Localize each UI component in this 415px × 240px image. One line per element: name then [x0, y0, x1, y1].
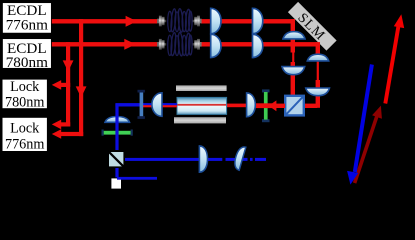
- lens column2 lower: [253, 34, 263, 57]
- lens B1 under SLM: [307, 54, 328, 61]
- arrowhead V1 down: [76, 86, 87, 97]
- wire V1 776nm pickoff vertical: [79, 19, 83, 136]
- arrowhead beam1: [126, 16, 137, 27]
- waveplate left of cell: [138, 90, 145, 119]
- beamsplitter cube 1: [285, 96, 304, 116]
- wire beam1 776nm left segment: [52, 19, 157, 23]
- arrowhead into Lock780: [52, 80, 61, 90]
- wire red through cell: [178, 104, 227, 106]
- filter green vertical: [262, 89, 270, 122]
- wire V2 to Lock776: [58, 122, 70, 126]
- plate bottom: [174, 117, 226, 123]
- lens A2 above cube: [282, 67, 305, 75]
- wire blue left of cell: [115, 103, 177, 106]
- SLM: [287, 2, 337, 52]
- wire vertical B 780 from SLM: [316, 42, 320, 61]
- svg-text:Lock: Lock: [10, 79, 40, 95]
- fiber coil 1: [168, 8, 192, 32]
- wire blue below cube2: [115, 168, 118, 177]
- arrowhead cube1 output: [269, 100, 277, 111]
- svg-text:780nm: 780nm: [5, 95, 44, 111]
- lens column2 upper: [253, 8, 263, 33]
- wire cube1 output left: [271, 104, 285, 108]
- arrowhead into Lock776 upper: [52, 120, 61, 130]
- fiber coupler 2 right: [193, 39, 202, 50]
- wire V2 780nm pickoff vertical: [66, 42, 70, 126]
- lens column1 lower: [211, 34, 221, 57]
- svg-text:Lock: Lock: [10, 120, 40, 136]
- lens above cube2: [105, 117, 130, 123]
- vapor cell: [177, 97, 227, 114]
- filter green horizontal: [102, 130, 133, 136]
- fiber coupler 2 left: [157, 39, 166, 50]
- detector white square: [111, 178, 121, 188]
- lens column1 upper: [211, 8, 221, 33]
- lens A1 under SLM: [283, 32, 305, 39]
- level arrow bright red 780: [385, 24, 399, 104]
- wire red to cell right: [227, 104, 248, 108]
- lens left of cell: [152, 93, 162, 117]
- wire beam2 780nm right segment: [201, 42, 320, 46]
- lens right of cell: [247, 93, 256, 117]
- wire beam1 776nm right segment: [201, 19, 295, 23]
- lens tilted bottom path: [233, 145, 246, 170]
- fiber coupler 1 left: [157, 16, 166, 27]
- box ECDL 776nm: [2, 2, 52, 34]
- box ECDL 780nm: [2, 38, 52, 71]
- beamsplitter cube 2: [108, 151, 124, 167]
- box Lock 776nm: [2, 117, 48, 152]
- wire elbow B to cube: [304, 104, 317, 108]
- plate top: [176, 85, 227, 91]
- svg-text:776nm: 776nm: [6, 16, 48, 33]
- wire blue vertical: [115, 104, 118, 150]
- wire blue cube2 right: [125, 158, 222, 161]
- svg-text:780nm: 780nm: [6, 54, 48, 71]
- arrowhead V2 down: [63, 60, 74, 71]
- fiber coil 2: [168, 32, 192, 56]
- wire V1 to Lock776: [59, 132, 83, 136]
- wire beam2 780nm left segment: [52, 42, 157, 46]
- arrowhead beam2: [124, 39, 135, 50]
- lens B2 above elbow: [306, 88, 330, 96]
- wire vertical A 776 from SLM: [291, 19, 295, 52]
- wire blue dash 2: [250, 158, 253, 161]
- arrowhead into Lock776 lower: [52, 129, 61, 139]
- fiber coupler 1 right: [193, 16, 202, 27]
- wire blue dash 1: [226, 158, 248, 161]
- lens bottom path: [199, 146, 207, 172]
- box Lock 780nm: [2, 79, 48, 111]
- wire blue detector line: [117, 177, 157, 180]
- level arrow blue 420 decay: [355, 65, 372, 173]
- wire blue dash 3: [255, 158, 266, 161]
- wire red left of cell: [142, 105, 178, 107]
- level arrow dark red 776: [355, 114, 378, 183]
- svg-text:776nm: 776nm: [5, 136, 44, 152]
- wire V2 branch to Lock780: [58, 83, 70, 87]
